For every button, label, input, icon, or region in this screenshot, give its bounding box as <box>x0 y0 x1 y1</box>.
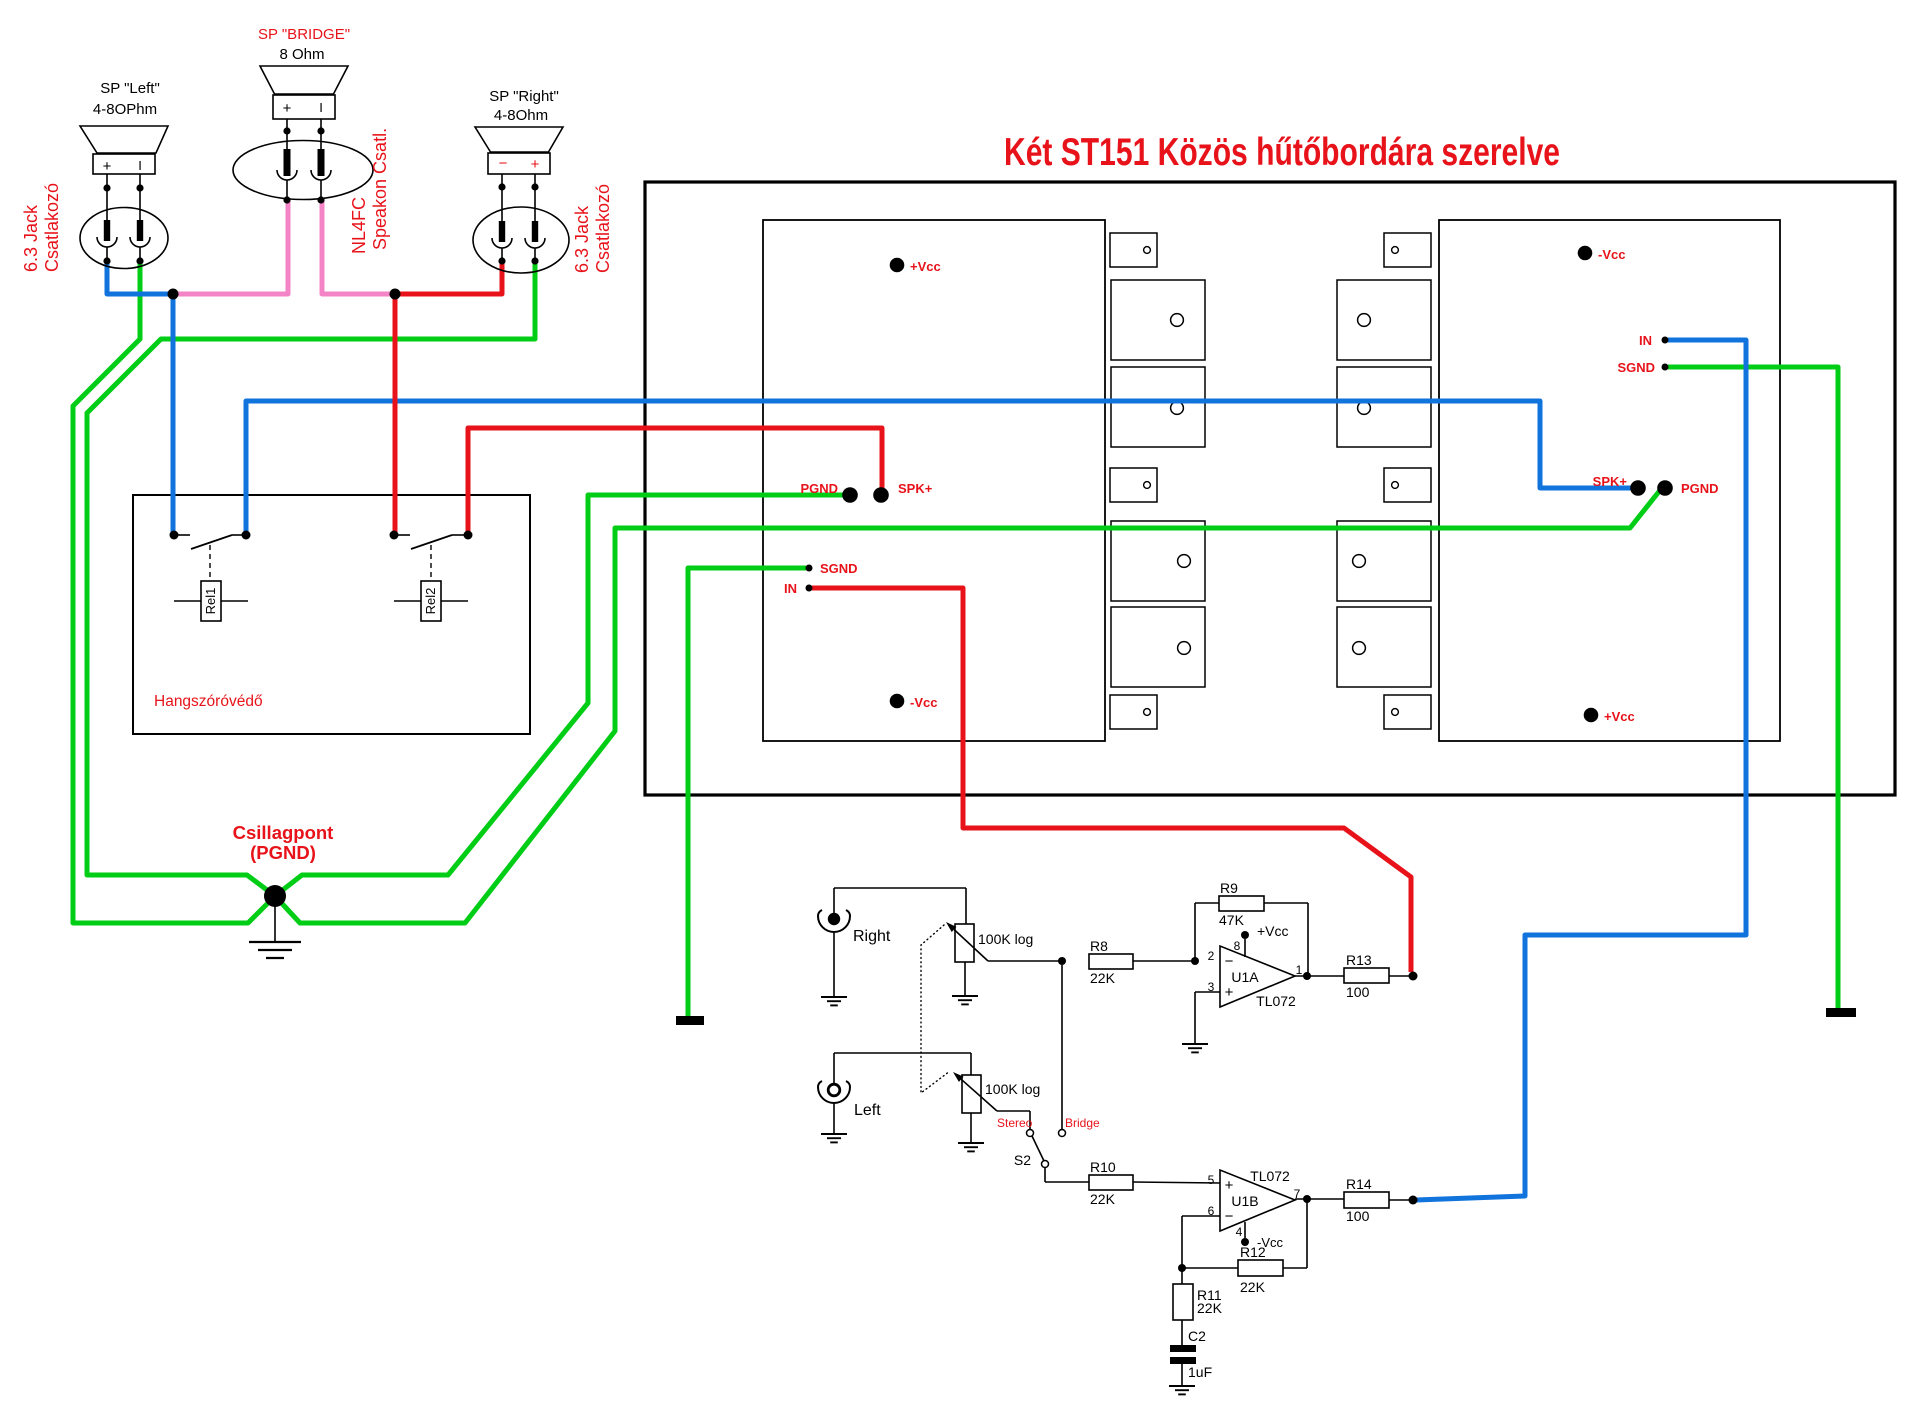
svg-text:TL072: TL072 <box>1250 1168 1290 1184</box>
svg-text:4: 4 <box>1236 1225 1243 1239</box>
svg-text:−: − <box>1225 953 1234 970</box>
svg-text:SP "Right": SP "Right" <box>489 88 559 105</box>
svg-text:R12: R12 <box>1240 1244 1266 1260</box>
svg-text:IN: IN <box>1639 333 1652 348</box>
svg-text:+Vcc: +Vcc <box>1257 923 1289 939</box>
svg-text:+: + <box>1225 1177 1234 1194</box>
svg-text:Rel2: Rel2 <box>423 588 438 615</box>
svg-text:100K log: 100K log <box>978 931 1033 947</box>
svg-text:2: 2 <box>1208 949 1215 963</box>
svg-text:1: 1 <box>1296 963 1303 977</box>
svg-text:+: + <box>1225 984 1234 1001</box>
svg-text:R9: R9 <box>1220 880 1238 896</box>
svg-text:Stereo: Stereo <box>997 1116 1033 1130</box>
svg-text:Hangszóróvédő: Hangszóróvédő <box>154 693 263 710</box>
svg-text:Speakon Csatl.: Speakon Csatl. <box>370 128 390 250</box>
svg-text:R8: R8 <box>1090 938 1108 954</box>
svg-text:-Vcc: -Vcc <box>1598 247 1625 262</box>
svg-text:100K log: 100K log <box>985 1081 1040 1097</box>
svg-text:22K: 22K <box>1090 1191 1116 1207</box>
svg-text:22K: 22K <box>1090 970 1116 986</box>
svg-text:6.3 Jack: 6.3 Jack <box>21 204 41 272</box>
svg-text:6.3 Jack: 6.3 Jack <box>572 205 592 273</box>
svg-text:SGND: SGND <box>820 561 858 576</box>
svg-text:SGND: SGND <box>1617 360 1655 375</box>
svg-text:Csatlakozó: Csatlakozó <box>593 184 613 273</box>
svg-text:S2: S2 <box>1014 1152 1031 1168</box>
svg-text:SP "Left": SP "Left" <box>100 80 160 97</box>
svg-text:+: + <box>531 156 540 173</box>
svg-text:Két ST151 Közös hűtőbordára sz: Két ST151 Közös hűtőbordára szerelve <box>1004 131 1560 174</box>
svg-text:8: 8 <box>1234 939 1241 953</box>
svg-text:I: I <box>319 100 323 115</box>
svg-text:100: 100 <box>1346 984 1370 1000</box>
svg-text:Right: Right <box>853 928 891 945</box>
svg-text:SP "BRIDGE": SP "BRIDGE" <box>258 26 350 43</box>
svg-text:Bridge: Bridge <box>1065 1116 1100 1130</box>
svg-text:47K: 47K <box>1219 912 1245 928</box>
svg-text:Rel1: Rel1 <box>203 588 218 615</box>
svg-text:PGND: PGND <box>800 481 838 496</box>
svg-text:NL4FC: NL4FC <box>349 197 369 254</box>
svg-text:TL072: TL072 <box>1256 993 1296 1009</box>
svg-text:SPK+: SPK+ <box>1593 474 1628 489</box>
svg-text:R14: R14 <box>1346 1176 1372 1192</box>
svg-text:(PGND): (PGND) <box>250 842 316 863</box>
svg-text:IN: IN <box>784 581 797 596</box>
svg-text:I: I <box>138 158 142 173</box>
svg-text:+: + <box>283 100 292 117</box>
svg-text:Left: Left <box>854 1102 881 1119</box>
svg-text:5: 5 <box>1208 1173 1215 1187</box>
svg-text:U1B: U1B <box>1231 1193 1258 1209</box>
svg-text:Csillagpont: Csillagpont <box>233 822 334 843</box>
svg-text:22K: 22K <box>1197 1300 1223 1316</box>
svg-text:−: − <box>1225 1208 1234 1225</box>
svg-text:1uF: 1uF <box>1188 1364 1212 1380</box>
svg-text:22K: 22K <box>1240 1279 1266 1295</box>
svg-text:+Vcc: +Vcc <box>1604 709 1635 724</box>
svg-text:4-8OPhm: 4-8OPhm <box>93 101 157 118</box>
svg-text:C2: C2 <box>1188 1328 1206 1344</box>
svg-text:R13: R13 <box>1346 952 1372 968</box>
svg-text:U1A: U1A <box>1231 969 1259 985</box>
svg-text:4-8Ohm: 4-8Ohm <box>494 107 548 124</box>
svg-text:R10: R10 <box>1090 1159 1116 1175</box>
svg-text:SPK+: SPK+ <box>898 481 933 496</box>
svg-text:Csatlakozó: Csatlakozó <box>42 183 62 272</box>
svg-text:PGND: PGND <box>1681 481 1719 496</box>
svg-text:−: − <box>499 155 508 172</box>
svg-text:-Vcc: -Vcc <box>910 695 937 710</box>
svg-text:8 Ohm: 8 Ohm <box>279 46 324 63</box>
svg-text:+: + <box>103 158 112 175</box>
svg-text:100: 100 <box>1346 1208 1370 1224</box>
svg-text:+Vcc: +Vcc <box>910 259 941 274</box>
